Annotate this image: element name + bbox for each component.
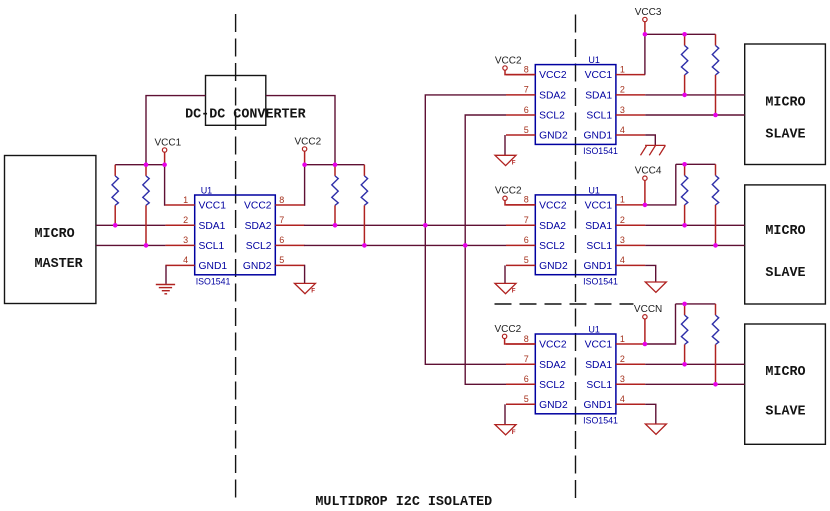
- junction SDA2 bus: [423, 223, 428, 228]
- pin numbers U1 slave2: [524, 195, 625, 266]
- resistor pull-up SDA1 primary: [112, 165, 118, 226]
- svg-text:8: 8: [524, 64, 529, 74]
- ground symbol (triangle) GND1 slave2: [645, 282, 666, 292]
- wire VCC1 riser to master pin 1: [164, 165, 167, 205]
- junction VCC4 / slave2 pin1: [643, 203, 648, 208]
- wire SDA2 bus (master to slave2): [304, 224, 506, 226]
- svg-text:1: 1: [620, 64, 625, 74]
- svg-text:VCCN: VCCN: [634, 304, 662, 315]
- ic U1 slave1 ISO1541: [535, 55, 618, 156]
- svg-text:VCC1: VCC1: [199, 201, 227, 212]
- svg-text:U1: U1: [588, 185, 600, 195]
- junction VCC4 rail / resistor: [682, 162, 687, 167]
- svg-text:U1: U1: [201, 186, 213, 196]
- svg-text:SDA1: SDA1: [199, 221, 226, 232]
- wire SCL1 master box to chip pin 3: [96, 244, 165, 246]
- wire slave2 pin 4 to ground: [645, 265, 656, 282]
- svg-text:GND1: GND1: [583, 261, 612, 272]
- power symbol VCC3 (slave1 pullups): [635, 7, 662, 34]
- ground symbol (triangle with F) GND2 slave2: [495, 283, 516, 294]
- wire slave1 pin 1 to VCC3 rail: [644, 34, 646, 74]
- svg-text:VCC1: VCC1: [585, 70, 613, 81]
- svg-text:8: 8: [524, 334, 529, 344]
- resistor pull-up slave2 SDA1: [681, 164, 687, 225]
- micro slave 2 block: [745, 185, 826, 304]
- wire dc-dc converter primary side: [146, 96, 206, 165]
- svg-text:MULTIDROP I2C ISOLATED: MULTIDROP I2C ISOLATED: [315, 495, 492, 510]
- junction VCC3 rail: [643, 32, 648, 37]
- pin stubs U1 slave1: [506, 75, 645, 135]
- junction VCC3 rail / resistor: [682, 32, 687, 37]
- svg-text:ISO1541: ISO1541: [583, 146, 618, 156]
- svg-text:SDA2: SDA2: [539, 360, 566, 371]
- wire slave1 pin 4 to chassis ground: [645, 135, 655, 145]
- svg-text:5: 5: [524, 255, 529, 265]
- wire slave3 pin 5 to ground: [504, 404, 506, 424]
- svg-text:SDA2: SDA2: [539, 221, 566, 232]
- power symbol VCC1 (primary): [154, 137, 181, 164]
- svg-text:VCC2: VCC2: [244, 201, 272, 212]
- svg-text:MICRO: MICRO: [765, 224, 805, 239]
- micro slave 3 block: [745, 324, 826, 444]
- ground symbol (earth bars) GND1 master: [156, 285, 175, 294]
- wire SDA1 master box to chip pin 2: [96, 224, 165, 226]
- junction slave1 SCL1 / pull-up: [713, 113, 718, 118]
- svg-text:SCL1: SCL1: [199, 241, 225, 252]
- ic U1 master ISO1541: [195, 186, 276, 287]
- svg-text:1: 1: [620, 195, 625, 205]
- wire top-right pull-up rail: [305, 164, 365, 166]
- wire slave2 SDA1 to micro slave: [645, 224, 745, 226]
- svg-text:4: 4: [620, 125, 625, 135]
- svg-text:GND1: GND1: [583, 131, 612, 142]
- junction VCC1 rail / pin1 riser: [162, 162, 167, 167]
- resistor pull-up slave3 SDA1: [681, 304, 687, 364]
- wire master pin 4 to ground: [165, 265, 167, 284]
- resistor pull-up SCL1 primary: [143, 165, 149, 246]
- svg-text:3: 3: [620, 105, 625, 115]
- resistor pull-up SCL2 secondary: [361, 165, 367, 246]
- svg-text:U1: U1: [588, 325, 600, 335]
- junction slave3 SDA1 / pull-up: [682, 362, 687, 367]
- svg-text:GND1: GND1: [583, 400, 612, 411]
- svg-text:6: 6: [524, 105, 529, 115]
- ground symbol (chassis slashes) GND1 slave1: [641, 145, 666, 155]
- svg-text:7: 7: [279, 215, 284, 225]
- svg-text:2: 2: [620, 215, 625, 225]
- wire SCL2 bus (master to slave2): [304, 244, 506, 246]
- pin stubs U1 slave3: [506, 344, 645, 404]
- junction VCC1 rail / resistor: [144, 162, 149, 167]
- wire VCC3 pull-up rail: [645, 33, 716, 35]
- junction VCCN rail / resistor: [682, 302, 687, 307]
- svg-text:4: 4: [620, 255, 625, 265]
- svg-text:F: F: [512, 429, 516, 436]
- svg-text:SCL2: SCL2: [246, 241, 272, 252]
- svg-text:SDA2: SDA2: [245, 221, 272, 232]
- junction slave3 SCL1 / pull-up: [713, 382, 718, 387]
- svg-text:3: 3: [620, 374, 625, 384]
- wire slave3 SCL1 to micro slave: [645, 383, 745, 385]
- svg-text:3: 3: [183, 235, 188, 245]
- wire slave1 SDA1 to micro slave: [645, 94, 745, 96]
- svg-text:ISO1541: ISO1541: [196, 277, 231, 287]
- svg-text:2: 2: [183, 215, 188, 225]
- wire VCC2 riser from master pin 8: [303, 165, 306, 205]
- svg-text:7: 7: [524, 354, 529, 364]
- dc-dc converter block: [185, 76, 306, 126]
- svg-text:SLAVE: SLAVE: [765, 404, 805, 419]
- svg-text:ISO1541: ISO1541: [583, 276, 618, 286]
- wire slave3 SDA1 to micro slave: [645, 363, 745, 365]
- svg-text:7: 7: [524, 215, 529, 225]
- svg-text:SDA1: SDA1: [585, 91, 612, 102]
- svg-text:SDA1: SDA1: [585, 360, 612, 371]
- svg-text:VCC2: VCC2: [539, 70, 567, 81]
- svg-text:SLAVE: SLAVE: [765, 266, 805, 281]
- svg-text:SCL1: SCL1: [586, 111, 612, 122]
- svg-text:SCL2: SCL2: [539, 380, 565, 391]
- svg-text:DC-DC CONVERTER: DC-DC CONVERTER: [185, 108, 306, 123]
- svg-text:VCC2: VCC2: [495, 186, 522, 197]
- ground symbol (triangle with F) GND2 slave1: [495, 155, 516, 166]
- svg-text:VCC2: VCC2: [495, 55, 522, 66]
- power symbol VCC4 (slave2 pullups): [635, 166, 662, 205]
- svg-text:8: 8: [279, 195, 284, 205]
- svg-text:U1: U1: [588, 55, 600, 65]
- junction SCL2 bus: [463, 243, 468, 248]
- ic U1 slave2 ISO1541: [535, 185, 618, 286]
- svg-text:6: 6: [279, 235, 284, 245]
- svg-text:VCC4: VCC4: [635, 166, 662, 177]
- svg-text:5: 5: [524, 394, 529, 404]
- svg-text:MICRO: MICRO: [765, 365, 805, 380]
- svg-text:F: F: [512, 288, 516, 295]
- junction SDA2 / pull-up: [333, 223, 338, 228]
- resistor pull-up slave1 SDA1: [681, 34, 687, 95]
- svg-text:6: 6: [524, 374, 529, 384]
- pin stubs U1 slave2: [506, 205, 645, 266]
- resistor pull-up slave1 SCL1: [712, 34, 718, 115]
- svg-text:4: 4: [183, 255, 188, 265]
- isolation barrier dashed line (right, through slave ISO1541 chips): [575, 15, 577, 505]
- isolation barrier dashed line (left, primary/secondary of master ISO1541): [235, 14, 237, 504]
- wire slave2 pin 5 to ground: [504, 265, 506, 283]
- svg-text:4: 4: [620, 394, 625, 404]
- svg-text:F: F: [311, 288, 315, 295]
- junction slave2 SCL1 / pull-up: [713, 243, 718, 248]
- svg-text:6: 6: [524, 235, 529, 245]
- power symbol VCC2 (master secondary): [294, 136, 321, 164]
- wire slave1 SCL1 to micro slave: [645, 114, 745, 116]
- svg-text:SLAVE: SLAVE: [765, 127, 805, 142]
- junction slave1 SDA1 / pull-up: [682, 93, 687, 98]
- junction SCL1 / pull-up: [144, 243, 149, 248]
- resistor pull-up slave3 SCL1: [712, 304, 718, 384]
- wire SCL2 vertical bus: [465, 115, 506, 384]
- power symbol VCC2 (slave3): [494, 324, 535, 344]
- pin numbers U1 slave3: [524, 334, 625, 404]
- micro master block: [5, 156, 96, 304]
- svg-text:SCL1: SCL1: [586, 380, 612, 391]
- svg-text:F: F: [512, 160, 516, 167]
- wire top-left pull-up rail: [115, 164, 164, 166]
- repetition divider dashed line (horizontal, between slave 2 and slave N): [495, 303, 634, 305]
- junction VCC2 rail / resistor: [333, 162, 338, 167]
- svg-text:7: 7: [524, 85, 529, 95]
- svg-text:1: 1: [183, 195, 188, 205]
- svg-text:VCC1: VCC1: [585, 201, 613, 212]
- pin numbers U1 master: [183, 195, 284, 265]
- wire slave2 SCL1 to micro slave: [645, 244, 745, 246]
- junction VCC2 rail / pin8 riser: [302, 162, 307, 167]
- wire dc-dc converter secondary side: [266, 96, 335, 165]
- wire SDA2 vertical bus: [425, 95, 506, 364]
- svg-text:5: 5: [279, 255, 284, 265]
- ic U1 slave3 ISO1541: [535, 325, 618, 426]
- svg-text:VCC2: VCC2: [539, 201, 567, 212]
- wire slave3 pin 1 to VCCN rail: [645, 304, 675, 344]
- power symbol VCCN (slave3 pullups): [634, 304, 662, 344]
- junction slave2 SDA1 / pull-up: [682, 223, 687, 228]
- pin numbers U1 slave1: [524, 64, 625, 134]
- wire VCC4 pull-up rail: [676, 163, 716, 165]
- svg-text:VCC3: VCC3: [635, 7, 662, 18]
- resistor pull-up SDA2 secondary: [332, 165, 338, 226]
- micro slave 1 block: [745, 44, 826, 165]
- svg-text:GND2: GND2: [539, 131, 568, 142]
- svg-text:VCC1: VCC1: [585, 340, 613, 351]
- svg-text:VCC2: VCC2: [539, 340, 567, 351]
- junction SCL2 / pull-up: [362, 243, 367, 248]
- svg-text:GND1: GND1: [199, 261, 228, 272]
- wire master pin 5 to ground: [303, 265, 306, 283]
- junction SDA1 / pull-up: [113, 223, 118, 228]
- power symbol VCC2 (slave1): [495, 55, 535, 74]
- svg-text:2: 2: [620, 354, 625, 364]
- svg-text:GND2: GND2: [243, 261, 272, 272]
- svg-text:VCC2: VCC2: [494, 324, 521, 335]
- ground symbol (triangle) GND1 slave3: [645, 424, 666, 434]
- power symbol VCC2 (slave2): [495, 186, 535, 205]
- svg-text:2: 2: [620, 85, 625, 95]
- svg-text:SDA1: SDA1: [585, 221, 612, 232]
- svg-text:1: 1: [620, 334, 625, 344]
- svg-text:VCC1: VCC1: [154, 137, 181, 148]
- ground symbol (triangle with F) GND2 slave3: [495, 425, 516, 436]
- svg-text:VCC2: VCC2: [294, 136, 321, 147]
- svg-text:ISO1541: ISO1541: [583, 416, 618, 426]
- svg-text:3: 3: [620, 235, 625, 245]
- svg-text:SCL1: SCL1: [586, 241, 612, 252]
- svg-text:5: 5: [524, 125, 529, 135]
- svg-text:GND2: GND2: [539, 400, 568, 411]
- ground symbol (triangle with F) GND2 master: [294, 283, 315, 294]
- svg-text:SCL2: SCL2: [539, 241, 565, 252]
- svg-text:GND2: GND2: [539, 261, 568, 272]
- wire VCCN pull-up rail: [676, 303, 716, 305]
- svg-text:MICRO: MICRO: [35, 227, 75, 242]
- svg-text:MASTER: MASTER: [35, 257, 84, 272]
- junction VCCN / slave3 pin1: [643, 342, 648, 347]
- wire slave3 pin 4 to ground: [645, 404, 656, 424]
- svg-text:8: 8: [524, 195, 529, 205]
- svg-text:SDA2: SDA2: [539, 91, 566, 102]
- resistor pull-up slave2 SCL1: [712, 164, 718, 245]
- svg-text:SCL2: SCL2: [539, 111, 565, 122]
- svg-text:MICRO: MICRO: [765, 96, 805, 111]
- pin stubs U1 master: [165, 205, 304, 265]
- wire slave1 pin 5 to ground: [504, 135, 506, 155]
- wire slave2 pin 1 to VCC4 rail: [645, 164, 676, 205]
